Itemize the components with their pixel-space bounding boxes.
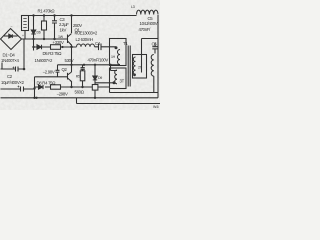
diode D5	[37, 45, 42, 49]
resistor R1	[42, 21, 47, 30]
svg-text:10µF/400V×2: 10µF/400V×2	[1, 80, 25, 85]
transistor Q2	[67, 73, 69, 80]
wire lower return	[77, 98, 161, 104]
fusible resistor FR1	[22, 16, 29, 31]
T1 upper winding	[118, 50, 121, 65]
T1 lower winding	[115, 70, 117, 84]
svg-text:530V: 530V	[65, 58, 74, 63]
T1 right phase dot	[133, 73, 136, 76]
transformer T1 upper box	[110, 39, 127, 66]
resistor R5	[81, 65, 85, 71]
svg-text:L2 630mH: L2 630mH	[76, 37, 94, 42]
wire mid B	[34, 46, 77, 48]
svg-text:104J/400V: 104J/400V	[140, 21, 158, 26]
node mid A x33	[32, 38, 34, 40]
svg-text:R5: R5	[76, 75, 80, 79]
T1 phase dot	[115, 46, 118, 49]
T1 lower phase dot	[113, 81, 116, 84]
svg-text:560Ω: 560Ω	[75, 90, 85, 95]
wire bottom rail	[1, 97, 159, 99]
T1 right winding	[133, 57, 135, 75]
svg-text:Q2: Q2	[62, 67, 68, 72]
wire feedback	[95, 82, 114, 84]
lamp winding	[151, 55, 154, 77]
transformer T1 lower box	[110, 68, 127, 89]
resistor R4	[51, 85, 61, 89]
svg-text:W.6: W.6	[153, 105, 159, 109]
svg-text:MJE13003×2: MJE13003×2	[75, 31, 98, 36]
svg-text:D5 R3 75Ω: D5 R3 75Ω	[43, 51, 63, 56]
wire left AC vertical	[34, 77, 36, 98]
wire mid A	[22, 38, 68, 40]
inductor L3	[137, 10, 159, 14]
svg-text:R1 470kΩ: R1 470kΩ	[38, 9, 56, 14]
svg-text:D8 R4 75Ω: D8 R4 75Ω	[37, 81, 57, 86]
wire lamp return	[110, 76, 159, 92]
svg-text:D1~D4: D1~D4	[3, 53, 16, 58]
node Q2 emitter	[70, 86, 72, 88]
svg-text:−298V: −298V	[57, 92, 68, 97]
node on rail x33	[32, 14, 34, 16]
svg-text:−2.98V: −2.98V	[43, 70, 55, 75]
lamp box	[142, 39, 159, 73]
capacitor C4	[95, 44, 117, 51]
svg-text:D6: D6	[37, 31, 41, 35]
svg-text:1N4007×2: 1N4007×2	[35, 58, 53, 63]
wire bottom emitter row	[35, 86, 110, 88]
wire top rail	[23, 15, 137, 17]
svg-text:2.2µF: 2.2µF	[59, 22, 69, 27]
resistor R7	[92, 85, 98, 91]
svg-text:470nF/100V: 470nF/100V	[88, 58, 109, 63]
transistor Q1	[70, 14, 72, 16]
svg-text:1kV: 1kV	[60, 28, 67, 33]
T1 core	[128, 46, 130, 87]
node midpoint	[70, 46, 73, 49]
wire Q2 base	[35, 76, 68, 78]
node rail x36	[35, 97, 37, 99]
wire mid C	[58, 64, 121, 66]
capacitor C8	[56, 65, 60, 77]
resistor R3	[51, 45, 61, 50]
T1 right box	[133, 55, 147, 79]
svg-text:470nF/: 470nF/	[139, 27, 152, 32]
diode D6	[31, 30, 35, 34]
svg-text:+330V: +330V	[53, 40, 64, 45]
wire doubler mid	[23, 39, 25, 69]
svg-text:3T: 3T	[120, 79, 125, 84]
diode D9	[93, 65, 97, 85]
svg-text:D9: D9	[98, 76, 102, 80]
capacitor C2b wire	[1, 87, 35, 92]
inductor L2	[77, 44, 95, 47]
node after R3	[61, 46, 63, 48]
wire x33 vertical	[33, 16, 35, 51]
wire FR1 to bridge node	[24, 31, 26, 39]
svg-text:L3: L3	[131, 5, 135, 9]
svg-text:1N4007×4: 1N4007×4	[1, 58, 19, 63]
capacitor C3	[52, 16, 57, 40]
capacitor C2a wire	[1, 67, 25, 72]
wire right edge	[157, 15, 159, 98]
bridge rectifier D1-D4	[1, 29, 22, 50]
diode D8	[39, 85, 44, 89]
capacitor C6	[152, 43, 158, 54]
